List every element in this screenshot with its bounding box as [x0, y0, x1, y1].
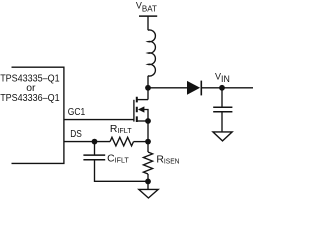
wire RISEN to ground node [147, 174, 149, 189]
capacitor C2 plates [213, 107, 232, 111]
wire DS pin to RIFLT [64, 141, 110, 143]
wire VIN node down to capacitor [221, 88, 223, 107]
inductor L1 [148, 30, 155, 76]
svg-text:DS: DS [70, 129, 82, 140]
IC box U1 (TPS43335-Q1 / TPS43336-Q1), open on left [12, 67, 64, 163]
ground (RISEN) [139, 189, 158, 198]
wire RIFLT to sense node [134, 141, 149, 143]
wire GC1 pin to MOSFET gate [64, 119, 134, 121]
transistor Q1 drain lead [137, 99, 148, 101]
wire VBAT bar to inductor [147, 16, 149, 30]
power rail VBAT bar [139, 15, 157, 17]
svg-text:CIFLT: CIFLT [107, 153, 129, 164]
resistor RIFLT [110, 137, 134, 146]
svg-text:TPS43336–Q1: TPS43336–Q1 [0, 93, 60, 104]
transistor Q1 body lead [144, 110, 148, 122]
wire diode cathode to VIN [201, 87, 253, 89]
junction: VIN [219, 85, 225, 91]
junction: ground bus [145, 179, 151, 185]
diode D1 cathode bar [200, 81, 202, 96]
wire DS node to CIFLT [94, 142, 96, 155]
wire source to RISEN [147, 121, 149, 152]
svg-text:RISEN: RISEN [156, 155, 179, 166]
junction: switch node [145, 85, 151, 91]
svg-text:GC1: GC1 [68, 107, 85, 118]
diode D1 body [187, 81, 200, 95]
svg-text:RIFLT: RIFLT [110, 124, 132, 135]
transistor Q1 body arrow [138, 106, 145, 112]
transistor Q1 gate bar [133, 100, 135, 122]
wire capacitor to ground [221, 112, 223, 132]
wire CIFLT bottom to ground bus [95, 160, 149, 181]
wire switch node to diode anode [148, 87, 187, 89]
resistor RISEN [143, 152, 152, 174]
junction: sense node [145, 139, 151, 145]
junction: source/body [145, 118, 151, 124]
transistor Q1 source lead [137, 120, 148, 122]
ground (VIN cap) [213, 132, 232, 141]
wire inductor to switch node [147, 76, 149, 100]
junction: DS / RIFLT / CIFLT [92, 139, 98, 145]
transistor Q1 channel bars [136, 97, 138, 122]
capacitor CIFLT plates [83, 155, 105, 160]
